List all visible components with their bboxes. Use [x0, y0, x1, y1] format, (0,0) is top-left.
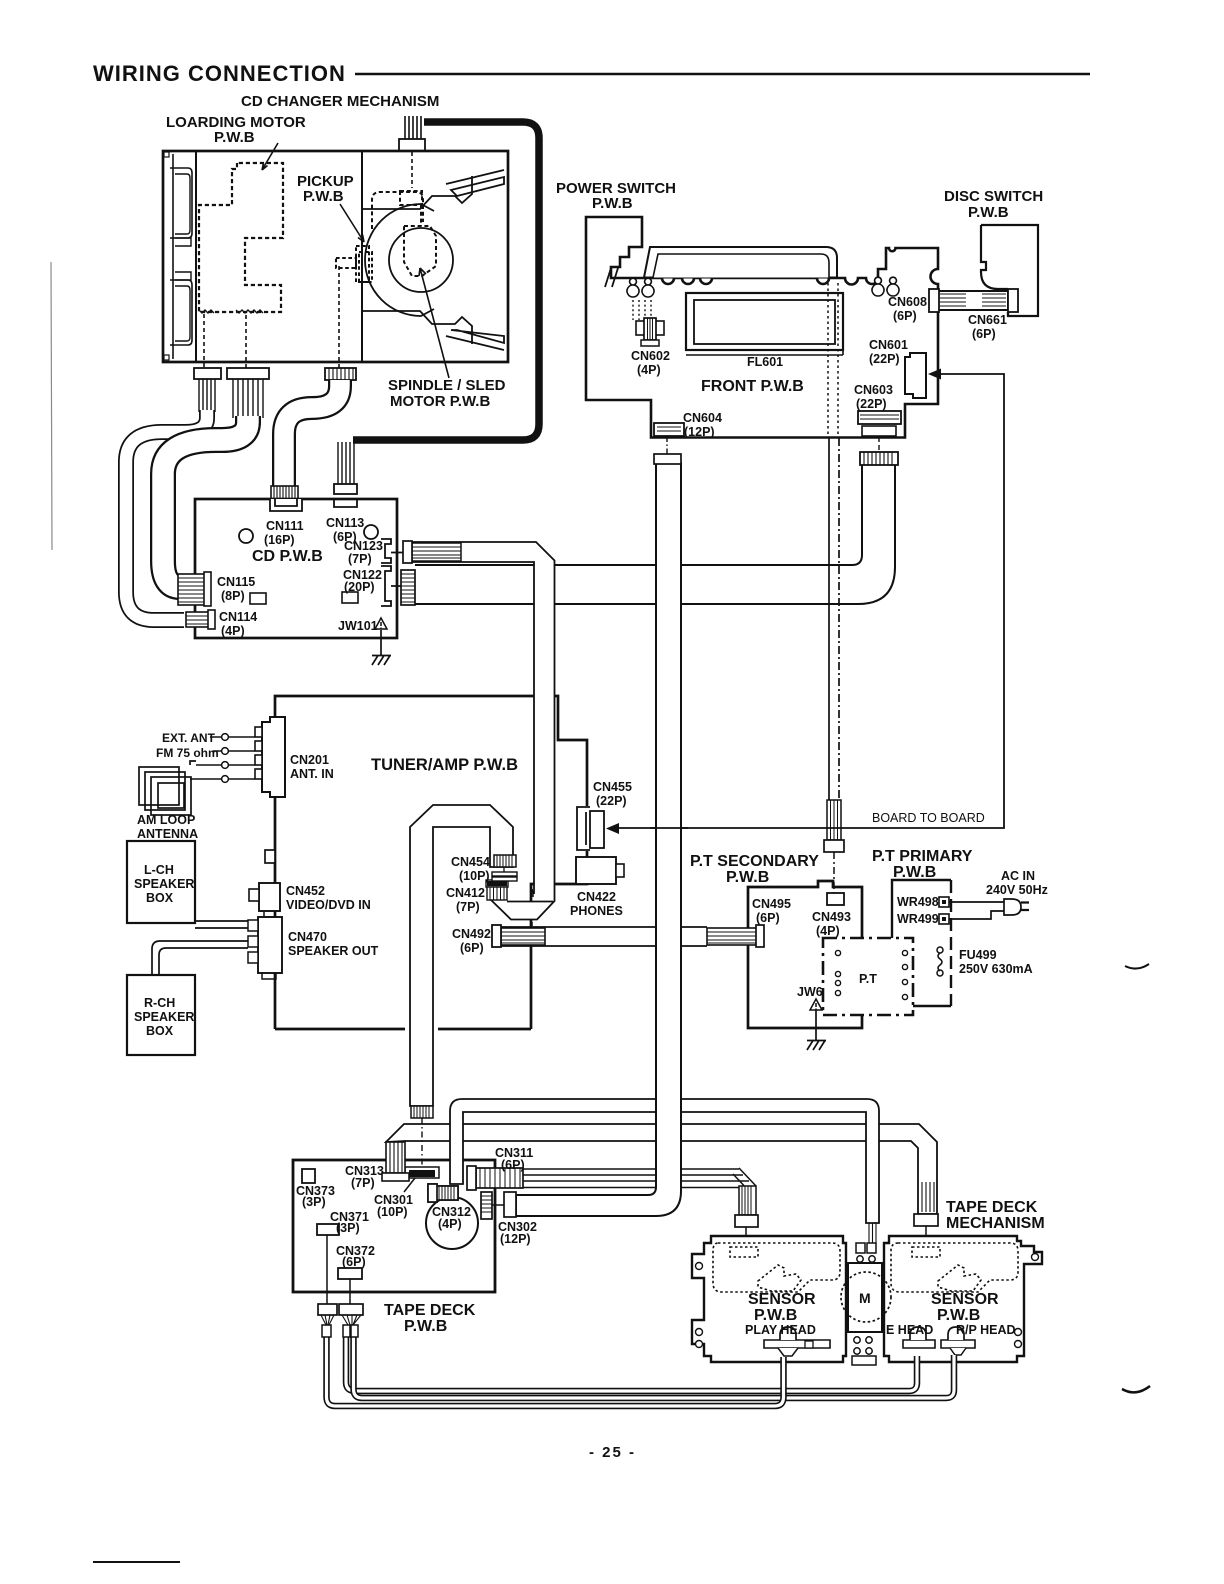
dotted vertical pair inside front PWB: [828, 283, 838, 438]
svg-text:TAPE DECK: TAPE DECK: [384, 1302, 476, 1319]
connector CN301 bar: [404, 1167, 439, 1192]
svg-text:P.T PRIMARY: P.T PRIMARY: [872, 848, 973, 865]
R/P head: [941, 1327, 975, 1355]
connector CN312 ribbon: [428, 1184, 458, 1202]
svg-text:CN608: CN608: [888, 295, 927, 309]
labels tape deck: [296, 1146, 1045, 1335]
wire CN123 cable to CN412: [412, 542, 555, 926]
connector CN455: [577, 807, 604, 850]
connector CN493: [827, 893, 844, 905]
speaker wires L-CH: [195, 921, 248, 928]
arrow spindle/sled: [419, 268, 449, 378]
margin swoosh lower: [1122, 1386, 1150, 1392]
wire thick cable CD mechanism to CD PWB: [353, 122, 539, 440]
speaker wires R-CH: [152, 941, 248, 975]
connector CN470: [248, 917, 282, 979]
svg-text:(6P): (6P): [501, 1158, 525, 1172]
CD P.W.B board: [195, 499, 397, 638]
connector CN113 bracket: [334, 499, 357, 507]
bottom-left rule: [93, 1561, 180, 1563]
svg-text:CN470: CN470: [288, 930, 327, 944]
connector CN422 phones: [576, 857, 624, 884]
power switch junction slashes: [605, 268, 618, 287]
connector CN412: [486, 880, 508, 900]
wire band stub3 to CN111: [284, 380, 340, 486]
connector CN312 ribbon top: [428, 1184, 458, 1202]
svg-text:P.W.B: P.W.B: [937, 1307, 980, 1324]
wire band stub1 to CN114: [126, 410, 207, 620]
connector CD mechanism top (to CD PWB CN113): [399, 116, 425, 151]
svg-text:JW6: JW6: [797, 985, 823, 999]
connector WR499: [939, 914, 949, 924]
svg-text:CN111: CN111: [266, 519, 304, 533]
dotted interior left sensor: [713, 1243, 840, 1292]
mounting hole right: [364, 525, 378, 539]
dashed drop lines to stubs: [204, 152, 412, 368]
left bracket top: [170, 168, 192, 238]
title WIRING CONNECTION: [93, 61, 346, 86]
scan fold line left margin: [51, 262, 52, 550]
connector CN604: [654, 423, 684, 436]
display FL601: [686, 293, 843, 355]
svg-text:P.W.B: P.W.B: [303, 188, 344, 205]
svg-text:250V 630mA: 250V 630mA: [959, 962, 1033, 976]
connector CN492: [492, 925, 545, 947]
svg-text:CN452: CN452: [286, 884, 325, 898]
svg-text:R/P HEAD: R/P HEAD: [956, 1323, 1016, 1337]
labels CD changer mechanism: [166, 93, 506, 410]
svg-text:AM LOOP: AM LOOP: [137, 813, 195, 827]
svg-text:P.W.B: P.W.B: [893, 864, 936, 881]
svg-text:(6P): (6P): [756, 911, 780, 925]
svg-text:VIDEO/DVD IN: VIDEO/DVD IN: [286, 898, 371, 912]
labels PT boards: [690, 811, 1048, 999]
svg-text:P.W.B: P.W.B: [754, 1307, 797, 1324]
svg-text:(4P): (4P): [438, 1217, 462, 1231]
svg-text:SPEAKER: SPEAKER: [134, 1010, 194, 1024]
wire ribbon thick-cable end to CN113: [338, 441, 354, 484]
svg-text:(4P): (4P): [816, 924, 840, 938]
connector CN452: [249, 883, 280, 917]
pad CN373: [302, 1169, 315, 1183]
svg-text:CN495: CN495: [752, 897, 791, 911]
svg-text:P.W.B: P.W.B: [726, 869, 769, 886]
labels sensor boards: [745, 1290, 1016, 1337]
connector CN115: [178, 572, 211, 606]
svg-text:PLAY HEAD: PLAY HEAD: [745, 1323, 816, 1337]
connector stub1 below mech: [194, 368, 221, 412]
svg-text:(8P): (8P): [221, 589, 245, 603]
left bracket bottom: [170, 280, 192, 345]
P.T SECONDARY P.W.B outline: [748, 881, 862, 1028]
svg-text:SPINDLE / SLED: SPINDLE / SLED: [388, 377, 506, 394]
wire cable A CN312 to center sensor connector: [450, 1099, 879, 1243]
dashed pickup outline right: [372, 191, 436, 276]
wire band stub2 to CN115: [163, 416, 248, 587]
svg-text:(12P): (12P): [684, 425, 715, 439]
connector caps tape wires: [318, 1304, 363, 1337]
connector CN114: [186, 610, 215, 629]
svg-text:CD CHANGER MECHANISM: CD CHANGER MECHANISM: [241, 93, 439, 110]
fuse FU499: [937, 947, 943, 976]
AC plug and cords: [949, 899, 1029, 919]
svg-text:JW101: JW101: [338, 619, 378, 633]
svg-text:(6P): (6P): [460, 941, 484, 955]
svg-text:CN454: CN454: [451, 855, 490, 869]
connector CN201 ANT IN block: [255, 717, 285, 797]
svg-text:(20P): (20P): [344, 580, 375, 594]
svg-text:ANT. IN: ANT. IN: [290, 767, 334, 781]
svg-text:CN123: CN123: [344, 539, 383, 553]
svg-text:P.W.B: P.W.B: [968, 204, 1009, 221]
svg-text:SENSOR: SENSOR: [748, 1291, 816, 1308]
svg-text:FRONT P.W.B: FRONT P.W.B: [701, 378, 804, 395]
connector CN312 circle: [426, 1197, 478, 1249]
P.T PRIMARY P.W.B outline: [892, 880, 951, 1006]
wedges top right: [451, 177, 504, 196]
svg-text:CN603: CN603: [854, 383, 893, 397]
keyhole screws left pair: [627, 278, 654, 297]
big C arc: [365, 204, 434, 316]
svg-text:(6P): (6P): [972, 327, 996, 341]
wire board-to-board link: [606, 369, 1004, 835]
svg-text:R-CH: R-CH: [144, 996, 175, 1010]
svg-text:P.W.B: P.W.B: [214, 129, 255, 146]
play head: [764, 1327, 830, 1356]
svg-text:L-CH: L-CH: [144, 863, 174, 877]
corner squares: [164, 152, 169, 157]
svg-text:P.T: P.T: [859, 972, 877, 986]
svg-text:(22P): (22P): [596, 794, 627, 808]
svg-text:BOX: BOX: [146, 1024, 174, 1038]
svg-text:CN114: CN114: [219, 610, 257, 624]
labels FRONT PWB: [556, 180, 1043, 439]
escutcheon band over display: [644, 247, 837, 278]
CD changer mechanism box: [163, 151, 508, 368]
L-CH speaker box: [127, 841, 195, 923]
svg-text:(7P): (7P): [456, 900, 480, 914]
svg-text:CN422: CN422: [577, 890, 616, 904]
svg-text:SENSOR: SENSOR: [931, 1291, 999, 1308]
dashed teeth bottom: [199, 310, 214, 313]
dotted interior right sensor: [891, 1243, 1018, 1292]
wire CN311 ribbon lines to sensor pwb: [523, 1168, 758, 1237]
connector CN454: [492, 855, 517, 881]
connector CN302: [481, 1192, 504, 1219]
small pad left on CD PWB: [250, 593, 266, 604]
wire CN122 band to CN603: [415, 452, 898, 604]
jumper JW101 warning triangle: [375, 618, 387, 629]
svg-text:CN113: CN113: [326, 516, 364, 530]
svg-text:EXT. ANT: EXT. ANT: [162, 731, 216, 745]
wire head tube CN371 to play head: [327, 1336, 784, 1406]
connector CN111 bracket: [270, 499, 302, 511]
page number: [589, 1444, 636, 1461]
svg-text:CN604: CN604: [683, 411, 722, 425]
svg-text:CN661: CN661: [968, 313, 1007, 327]
small connectors between sensor boards top: [856, 1243, 876, 1262]
R-CH speaker box: [127, 975, 195, 1055]
wire head tube CN372a to E head: [346, 1336, 917, 1391]
svg-text:CN492: CN492: [452, 927, 491, 941]
svg-text:FU499: FU499: [959, 948, 997, 962]
ground JW101: [372, 630, 391, 665]
jumper JW6 warning triangle: [810, 999, 822, 1010]
wire CN492 band to CN495: [501, 925, 764, 947]
labels CD PWB: [217, 516, 383, 638]
AM loop antenna: [139, 761, 196, 815]
svg-text:FL601: FL601: [747, 355, 783, 369]
svg-text:CN201: CN201: [290, 753, 329, 767]
P.T transformer block: [823, 938, 913, 1015]
left inner band: [195, 151, 197, 362]
connector CN122 on CD PWB: [401, 570, 415, 605]
svg-text:TAPE DECK: TAPE DECK: [946, 1199, 1038, 1216]
small connectors below motor: [852, 1337, 876, 1365]
svg-text:P.W.B: P.W.B: [404, 1318, 447, 1335]
svg-text:240V 50Hz: 240V 50Hz: [986, 883, 1048, 897]
cam plate right half: [362, 170, 504, 350]
svg-text:M: M: [859, 1290, 871, 1306]
svg-text:(4P): (4P): [221, 624, 245, 638]
motor M: [841, 1263, 891, 1332]
svg-text:(16P): (16P): [264, 533, 295, 547]
loading motor PWB dashed outline: [199, 163, 283, 312]
svg-text:(3P): (3P): [336, 1221, 360, 1235]
ground JW6: [807, 1010, 826, 1050]
svg-text:(7P): (7P): [348, 552, 372, 566]
svg-text:CN493: CN493: [812, 910, 851, 924]
connector stub2 below mech: [227, 368, 269, 418]
wedges bottom right: [451, 330, 504, 343]
wire vertical pair front PWB to CN493: [824, 438, 844, 893]
DISC SWITCH box: [981, 225, 1038, 316]
arrow pickup: [340, 204, 364, 242]
connector CN313: [382, 1142, 409, 1181]
connector CN608/CN661 ribbon: [929, 289, 1018, 312]
svg-text:CN602: CN602: [631, 349, 670, 363]
svg-text:CD P.W.B: CD P.W.B: [252, 548, 323, 565]
wire head tube CN372b to R/P head: [354, 1336, 955, 1398]
TAPE DECK P.W.B outline: [293, 1160, 495, 1292]
small pad right on CD PWB: [342, 592, 358, 603]
connector CN602: [636, 318, 664, 346]
svg-text:(10P): (10P): [459, 869, 490, 883]
svg-text:CN455: CN455: [593, 780, 632, 794]
svg-text:- 25 -: - 25 -: [589, 1444, 636, 1461]
connector stub3 below mech: [325, 368, 356, 380]
svg-text:(4P): (4P): [637, 363, 661, 377]
SENSOR P.W.B left board: [692, 1236, 846, 1362]
SENSOR P.W.B right board: [884, 1236, 1042, 1362]
dotted screw-to-CN602 lines: [633, 300, 651, 320]
svg-text:FM 75 ohm: FM 75 ohm: [156, 746, 219, 760]
svg-text:WR498: WR498: [897, 895, 939, 909]
FRONT P.W.B outline: [586, 217, 938, 438]
E head: [903, 1327, 935, 1348]
connector CN113 cap: [334, 484, 357, 494]
connector CN311: [467, 1166, 523, 1190]
connector CN372: [338, 1268, 362, 1279]
pickup pwb small dashed rects: [336, 246, 372, 282]
svg-text:AC IN: AC IN: [1001, 869, 1035, 883]
svg-text:(22P): (22P): [856, 397, 887, 411]
svg-text:(10P): (10P): [377, 1205, 408, 1219]
svg-text:TUNER/AMP P.W.B: TUNER/AMP P.W.B: [371, 756, 518, 774]
svg-text:SPEAKER: SPEAKER: [134, 877, 194, 891]
connector CN601: [905, 353, 926, 398]
svg-text:MOTOR P.W.B: MOTOR P.W.B: [390, 393, 490, 410]
svg-text:BOARD TO BOARD: BOARD TO BOARD: [872, 811, 985, 825]
labels mid connectors: [446, 780, 632, 955]
svg-text:E HEAD: E HEAD: [886, 1323, 933, 1337]
arrow loading motor: [262, 143, 278, 170]
svg-text:(12P): (12P): [500, 1232, 531, 1246]
connector CN123 bracket on edge: [381, 539, 403, 563]
svg-text:BOX: BOX: [146, 891, 174, 905]
spindle circle: [389, 228, 453, 292]
left edge small tab: [265, 850, 275, 863]
connector WR498: [939, 897, 949, 907]
svg-text:WR499: WR499: [897, 912, 939, 926]
svg-text:WIRING CONNECTION: WIRING CONNECTION: [93, 61, 346, 86]
svg-text:P.W.B: P.W.B: [592, 195, 633, 212]
connector CN603: [858, 411, 901, 452]
svg-text:(22P): (22P): [869, 352, 900, 366]
svg-text:(6P): (6P): [893, 309, 917, 323]
antenna terminal circles and leads: [190, 734, 255, 783]
TUNER/AMP P.W.B outline: [275, 696, 587, 1029]
mounting hole left: [239, 529, 253, 543]
wire CN454 elbow cable down to CN301: [410, 805, 513, 1167]
svg-text:(7P): (7P): [351, 1176, 375, 1190]
connector CN122 bracket on edge: [381, 566, 401, 606]
svg-text:SPEAKER OUT: SPEAKER OUT: [288, 944, 379, 958]
wire cable B tape deck CN313 to right sensor pwb: [386, 1124, 938, 1236]
svg-text:P.T SECONDARY: P.T SECONDARY: [690, 853, 819, 870]
keyhole screws right pair: [872, 277, 899, 296]
svg-text:CN601: CN601: [869, 338, 908, 352]
wire CN371 drop: [326, 1235, 328, 1305]
center divider: [361, 151, 363, 362]
wire CN372 drop: [349, 1279, 351, 1305]
svg-text:PHONES: PHONES: [570, 904, 623, 918]
svg-text:CN115: CN115: [217, 575, 255, 589]
svg-text:(3P): (3P): [302, 1195, 326, 1209]
margin swoosh upper: [1125, 964, 1149, 969]
connector CN111 ribbon hatch: [271, 486, 298, 499]
connector CN371: [317, 1224, 339, 1235]
wire CN604 big cable down to CN302 band: [504, 437, 688, 1217]
svg-text:CN412: CN412: [446, 886, 485, 900]
connector CN123 ribbon: [403, 541, 461, 563]
svg-text:MECHANISM: MECHANISM: [946, 1215, 1045, 1232]
title rule: [355, 73, 1090, 76]
labels tuner/amp: [134, 731, 518, 1038]
svg-text:(6P): (6P): [342, 1255, 366, 1269]
svg-text:DISC SWITCH: DISC SWITCH: [944, 188, 1043, 205]
svg-text:ANTENNA: ANTENNA: [137, 827, 198, 841]
